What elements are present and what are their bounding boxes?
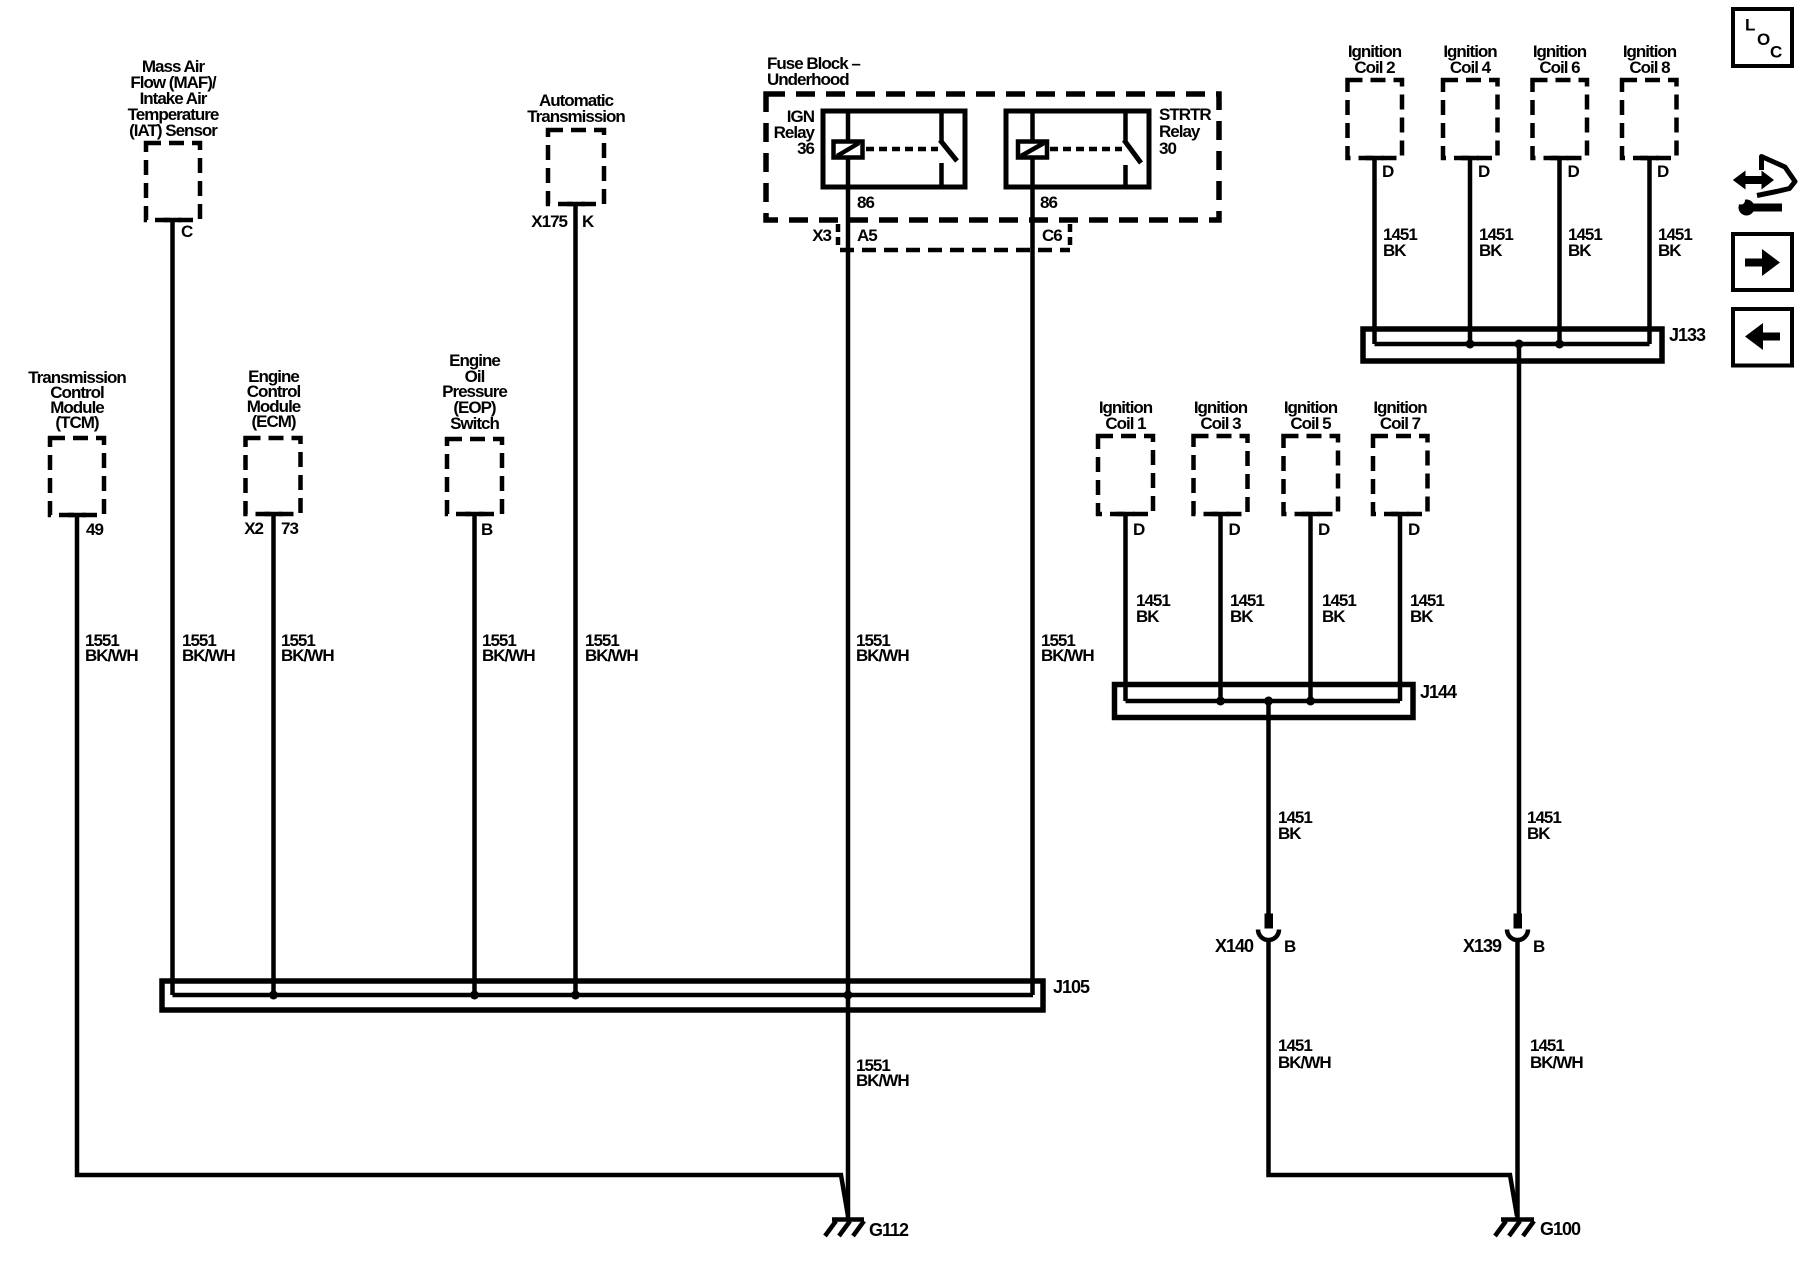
svg-text:D: D: [1133, 520, 1145, 539]
wire: ECM pin 73 down to J105: [271, 514, 276, 993]
wire: TCM pin 49 down, across bottom to ground G112: [77, 515, 848, 1216]
wire: STRTR relay pin 86 down through X3/C6 to J105: [1030, 111, 1035, 995]
svg-text:C6: C6: [1042, 226, 1062, 245]
svg-text:J105: J105: [1053, 977, 1090, 997]
svg-text:C: C: [1770, 43, 1782, 62]
ground G112 hatches: [825, 1221, 836, 1236]
icon: adjust/repair glyph wrench: [1739, 200, 1755, 216]
wire: J144 output down to X140: [1266, 701, 1271, 914]
svg-text:86: 86: [857, 193, 874, 212]
relay: STRTR Relay 30 outline: [1006, 111, 1149, 187]
STRTR relay switch lower contact: [1123, 165, 1128, 187]
svg-text:49: 49: [86, 520, 103, 539]
svg-text:(ECM): (ECM): [251, 412, 295, 431]
svg-text:X139: X139: [1463, 936, 1502, 956]
svg-text:B: B: [1533, 937, 1545, 956]
wire: coil 5 pin D to J144: [1308, 514, 1313, 699]
svg-text:Underhood: Underhood: [767, 70, 849, 89]
svg-text:Coil 6: Coil 6: [1539, 58, 1580, 77]
junction dot J133 output tap: [1515, 340, 1524, 349]
IGN relay actuation dashed link: [866, 147, 938, 152]
svg-text:Switch: Switch: [450, 414, 499, 433]
label: Ignition Coil 6: [1533, 42, 1587, 77]
connector: Ignition Coil 1 dashed box: [1098, 436, 1153, 514]
junction dot at J105 (IGN relay wire): [844, 991, 853, 1000]
svg-text:D: D: [1382, 162, 1394, 181]
svg-text:30: 30: [1159, 139, 1176, 158]
splice pack J105 inner bus line: [173, 993, 1034, 998]
icon: adjust/repair glyph double arrow: [1743, 176, 1764, 184]
connector: Automatic Transmission dashed box: [548, 130, 604, 204]
svg-text:X175: X175: [531, 212, 567, 231]
svg-text:BK/WH: BK/WH: [182, 646, 235, 665]
wire: IGN relay pin 86 down through X3/A5 and J105 to ground G112: [846, 111, 851, 1218]
STRTR relay switch blade: [1124, 140, 1141, 163]
svg-text:J144: J144: [1420, 682, 1457, 702]
svg-text:O: O: [1757, 30, 1770, 49]
junction dot at J133 (coil 6 wire): [1555, 340, 1564, 349]
connector: TCM dashed box: [50, 438, 104, 515]
svg-text:86: 86: [1040, 193, 1057, 212]
connector X3 dotted outline bottom: [840, 248, 1070, 253]
svg-text:BK: BK: [1568, 241, 1592, 260]
svg-text:BK/WH: BK/WH: [85, 646, 138, 665]
connector: Ignition Coil 7 dashed box: [1373, 436, 1428, 514]
connector X3 dotted outline left: [836, 224, 841, 247]
connector: Ignition Coil 8 dashed box: [1622, 80, 1677, 158]
label: Ignition Coil 7: [1373, 398, 1427, 433]
svg-text:36: 36: [797, 139, 814, 158]
svg-text:BK/WH: BK/WH: [1278, 1053, 1331, 1072]
svg-text:Coil 7: Coil 7: [1380, 414, 1421, 433]
svg-text:X140: X140: [1215, 936, 1254, 956]
connector X140 female cup: [1258, 930, 1279, 941]
label: Transmission Control Module (TCM): [28, 368, 126, 432]
connector X140 male terminal: [1265, 914, 1274, 929]
splice pack J144 inner bus line: [1126, 699, 1401, 704]
splice pack J105 outer box: [162, 981, 1043, 1010]
svg-text:L: L: [1745, 16, 1755, 35]
svg-text:BK: BK: [1479, 241, 1503, 260]
junction dot at J144 (coil 3 wire): [1216, 697, 1225, 706]
svg-text:Transmission: Transmission: [527, 107, 625, 126]
wire: coil 1 pin D to J144: [1123, 514, 1128, 701]
wire: X139 down to ground G100: [1515, 941, 1520, 1218]
svg-text:B: B: [481, 520, 493, 539]
svg-text:X2: X2: [244, 519, 263, 538]
icon: forward arrow box: [1733, 234, 1792, 290]
ground G100 bar: [1501, 1217, 1534, 1222]
STRTR relay actuation dashed link: [1050, 147, 1122, 152]
junction dot at J105 (AT wire): [571, 991, 580, 1000]
svg-text:B: B: [1284, 937, 1296, 956]
label: Ignition Coil 1: [1099, 398, 1153, 433]
back arrow: [1762, 333, 1780, 341]
svg-text:Coil 1: Coil 1: [1105, 414, 1146, 433]
svg-text:BK: BK: [1278, 824, 1302, 843]
connector X139 female cup: [1507, 930, 1528, 941]
connector: MAF/IAT sensor dashed box: [146, 143, 200, 220]
wire: coil 6 pin D to J133: [1557, 158, 1562, 342]
junction dot at J144 (coil 5 wire): [1306, 697, 1315, 706]
connector: Ignition Coil 3 dashed box: [1194, 436, 1248, 514]
svg-text:J133: J133: [1669, 325, 1706, 345]
svg-text:Coil 3: Coil 3: [1200, 414, 1241, 433]
svg-text:BK/WH: BK/WH: [482, 646, 535, 665]
junction dot at J105 (EOP wire): [470, 991, 479, 1000]
svg-text:BK: BK: [1383, 241, 1407, 260]
label: Mass Air Flow (MAF)/Intake Air Temperature (IAT) Sensor: [128, 57, 219, 140]
svg-text:BK/WH: BK/WH: [281, 646, 334, 665]
svg-text:D: D: [1229, 520, 1241, 539]
connector: Ignition Coil 6 dashed box: [1533, 80, 1588, 158]
svg-text:Coil 8: Coil 8: [1629, 58, 1670, 77]
svg-text:BK/WH: BK/WH: [856, 1071, 909, 1090]
junction dot at J133 (coil 4 wire): [1466, 340, 1475, 349]
svg-text:D: D: [1657, 162, 1669, 181]
STRTR relay coil box: [1018, 142, 1047, 158]
svg-text:73: 73: [281, 519, 298, 538]
label: Ignition Coil 5: [1284, 398, 1338, 433]
svg-text:BK/WH: BK/WH: [856, 646, 909, 665]
svg-text:G112: G112: [869, 1220, 909, 1240]
svg-text:G100: G100: [1540, 1219, 1581, 1239]
IGN relay switch lower contact: [939, 163, 944, 187]
relay: IGN Relay 36 outline: [823, 111, 965, 187]
IGN relay coil box: [834, 142, 863, 158]
wire: coil 2 pin D to J133: [1372, 158, 1377, 344]
junction dot at J105 (ECM wire): [269, 991, 278, 1000]
svg-text:BK: BK: [1322, 607, 1346, 626]
svg-text:A5: A5: [857, 226, 877, 245]
svg-text:BK/WH: BK/WH: [1530, 1053, 1583, 1072]
connector: Ignition Coil 4 dashed box: [1443, 80, 1498, 158]
svg-text:BK: BK: [1527, 824, 1551, 843]
wire: X140 down and across to ground G100: [1269, 941, 1518, 1216]
icon: back arrow box: [1733, 309, 1792, 366]
connector X139 male terminal: [1514, 914, 1523, 929]
wire: coil 4 pin D to J133: [1468, 158, 1473, 342]
svg-text:BK: BK: [1410, 607, 1434, 626]
svg-text:D: D: [1318, 520, 1330, 539]
forward arrow: [1745, 259, 1763, 267]
label: Ignition Coil 4: [1443, 42, 1497, 77]
svg-text:BK/WH: BK/WH: [1041, 646, 1094, 665]
svg-text:BK: BK: [1658, 241, 1682, 260]
svg-text:K: K: [582, 212, 595, 231]
splice pack J133 outer box: [1363, 329, 1662, 361]
splice pack J133 inner bus line: [1375, 342, 1650, 347]
label: Automatic Transmission: [527, 91, 625, 126]
connector: Ignition Coil 5 dashed box: [1284, 436, 1339, 514]
label: IGN Relay 36: [774, 107, 816, 158]
svg-text:Coil 4: Coil 4: [1450, 58, 1492, 77]
wire: Automatic Transmission pin K down to J105: [573, 204, 578, 993]
icon: adjust/repair glyph hook outline: [1757, 157, 1795, 196]
icon: LOC reference box: [1733, 9, 1792, 66]
connector: ECM dashed box: [246, 438, 301, 514]
label: Ignition Coil 2: [1348, 42, 1402, 77]
wire: J133 output down to X139: [1517, 344, 1522, 914]
label: Engine Oil Pressure (EOP) Switch: [442, 351, 507, 433]
fuse block underhood dashed outline: [766, 94, 1219, 220]
svg-text:(IAT) Sensor: (IAT) Sensor: [129, 121, 218, 140]
svg-text:BK/WH: BK/WH: [585, 646, 638, 665]
svg-text:BK: BK: [1230, 607, 1254, 626]
svg-text:BK: BK: [1136, 607, 1160, 626]
svg-text:D: D: [1478, 162, 1490, 181]
svg-text:X3: X3: [812, 226, 831, 245]
label: Engine Control Module (ECM): [247, 367, 301, 431]
svg-text:D: D: [1568, 162, 1580, 181]
wire: EOP pin B down to J105: [472, 514, 477, 993]
label: Ignition Coil 8: [1623, 42, 1677, 77]
connector: EOP switch dashed box: [447, 439, 502, 514]
wire: coil 3 pin D to J144: [1218, 514, 1223, 699]
connector: Ignition Coil 2 dashed box: [1348, 80, 1403, 158]
ground G112 bar: [832, 1217, 864, 1222]
svg-text:C: C: [181, 222, 193, 241]
ground G100 hatches: [1495, 1221, 1506, 1236]
splice pack J144 outer box: [1115, 685, 1414, 718]
STRTR relay switch upper contact: [1123, 111, 1128, 141]
svg-text:Coil 5: Coil 5: [1290, 414, 1331, 433]
connector X3 dotted outline right: [1068, 224, 1073, 247]
svg-text:Coil 2: Coil 2: [1354, 58, 1395, 77]
IGN relay switch upper contact: [939, 111, 944, 141]
STRTR relay coil diagonal: [1021, 143, 1044, 156]
IGN relay switch blade: [940, 140, 957, 161]
svg-text:D: D: [1408, 520, 1420, 539]
IGN relay coil diagonal: [837, 143, 859, 156]
wire: MAF pin C down to J105: [170, 220, 175, 995]
wire: coil 8 pin D to J133: [1647, 158, 1652, 344]
junction dot J144 output tap: [1264, 697, 1273, 706]
wire: coil 7 pin D to J144: [1398, 514, 1403, 701]
label: Ignition Coil 3: [1194, 398, 1248, 433]
svg-text:(TCM): (TCM): [55, 413, 98, 432]
